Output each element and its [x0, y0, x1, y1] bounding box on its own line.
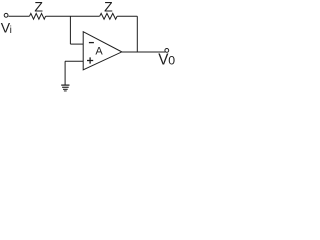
resistor Z1 — [30, 13, 46, 19]
wire input to Z1 — [9, 15, 30, 17]
ground lead wire — [64, 61, 66, 85]
op-amp non-inverting input plus sign — [87, 57, 93, 63]
output wire — [122, 51, 165, 53]
svg-text:Z: Z — [34, 0, 43, 15]
svg-text:Z: Z — [104, 0, 113, 15]
wire Z2 to feedback corner — [117, 15, 137, 17]
output terminal — [165, 49, 169, 53]
op-amp U1 — [83, 32, 122, 70]
wire Z1 to Z2 — [46, 15, 100, 17]
svg-text:0: 0 — [168, 54, 175, 68]
node junction on top wire — [69, 16, 71, 44]
label Vo — [158, 52, 175, 69]
wire to inverting input — [70, 43, 83, 45]
wire to non-inverting input — [65, 60, 83, 62]
resistor Z2 — [100, 13, 117, 19]
label Vi — [1, 19, 12, 36]
feedback wire down to output node — [136, 16, 138, 52]
ground — [61, 85, 69, 92]
op-amp inverting input minus sign — [89, 42, 94, 44]
svg-text:A: A — [95, 46, 103, 58]
input terminal — [4, 13, 8, 17]
svg-text:i: i — [10, 25, 12, 36]
